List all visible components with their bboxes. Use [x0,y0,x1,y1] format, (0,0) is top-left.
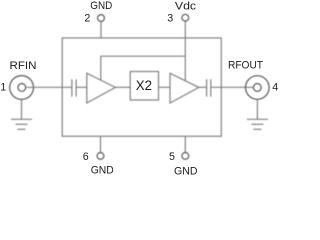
bias rail wire [101,56,186,80]
svg-text:RFOUT: RFOUT [228,60,263,72]
RFOUT ground stub wire [256,99,258,119]
pin 3 lead wire (Vdc into package) [184,21,186,81]
wire C2 to pin 4 [211,86,254,88]
amplifier A2 [170,73,199,103]
amplifier A1 [87,73,116,103]
capacitor C1 [72,79,76,96]
capacitor C2 [207,79,211,96]
svg-text:2: 2 [84,13,90,25]
RFIN coax connector outer ring (pin 1) [10,76,34,100]
RFIN ground stub wire [21,99,23,119]
pin 2 circle [98,15,105,22]
multiplier block X2 [130,72,158,101]
svg-text:Vdc: Vdc [175,0,197,12]
RFIN center conductor [18,84,26,92]
svg-text:GND: GND [90,0,112,12]
svg-text:3: 3 [167,12,173,24]
ground symbol right [247,119,268,129]
svg-text:6: 6 [83,151,89,163]
pin 6 lead wire [100,136,102,152]
pin 5 circle [182,153,189,160]
ground symbol left [11,119,32,129]
wire A2 to C2 [199,86,207,88]
svg-text:GND: GND [91,165,114,176]
svg-text:4: 4 [272,81,278,93]
wire A1 to X2 [115,86,130,88]
wire X2 to amplifier A2 [159,86,171,88]
pin 6 circle [97,153,104,160]
RFOUT center conductor [253,84,261,92]
svg-text:GND: GND [174,166,198,176]
svg-text:RFIN: RFIN [10,60,37,72]
svg-text:1: 1 [0,82,6,94]
svg-text:X2: X2 [136,78,152,93]
wire pin1 to C1 [26,86,72,88]
RFOUT coax connector outer ring (pin 4) [245,76,269,100]
pin 3 circle [182,14,189,21]
IC package outline U1 [62,38,221,136]
pin 2 lead wire [100,21,102,37]
wire C1 to amplifier A1 [76,86,87,88]
pin 5 lead wire [184,136,186,152]
svg-text:5: 5 [169,151,175,163]
